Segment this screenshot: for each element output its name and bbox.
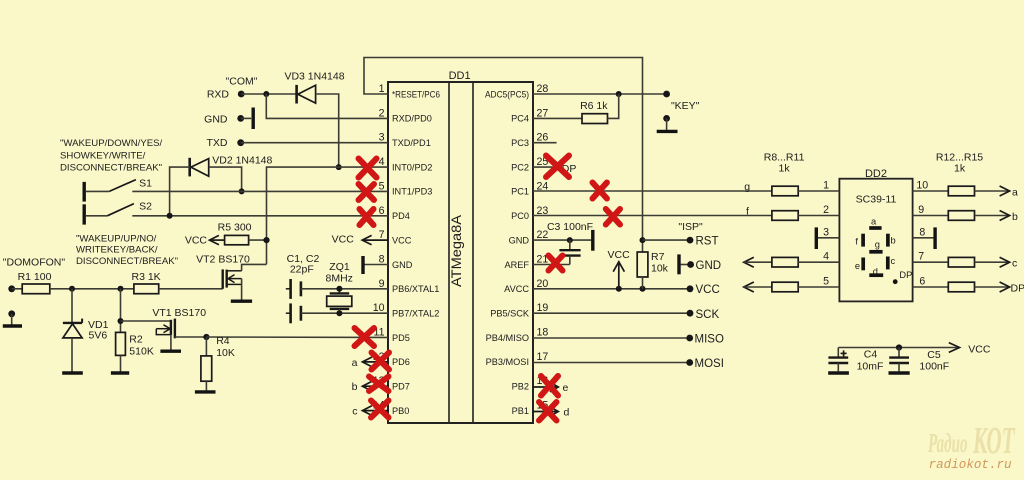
wire pin17 MOSI: [533, 362, 690, 364]
ground ISP, rotated bar: [679, 254, 691, 274]
label C1, C2: [287, 253, 320, 276]
display net row3 left ground, rotated bar: [816, 227, 839, 249]
svg-text:7: 7: [918, 251, 924, 263]
X mark pin15: [539, 402, 557, 421]
svg-text:Радио: Радио: [927, 428, 967, 458]
svg-text:PC4: PC4: [511, 114, 529, 124]
svg-text:d: d: [873, 267, 878, 277]
svg-text:10k: 10k: [651, 263, 669, 275]
node C3 junction: [567, 237, 573, 243]
svg-text:R7: R7: [651, 251, 665, 263]
switch S1: [84, 180, 136, 202]
wire pin4 INT0 horizontal and drop to R5 node: [267, 167, 389, 264]
wire pin21 AREF to C3: [533, 264, 570, 266]
svg-text:3: 3: [823, 226, 829, 238]
terminal DOMOFON input: [8, 285, 15, 292]
terminal ISP VCC: [687, 285, 694, 292]
svg-text:b: b: [352, 381, 358, 393]
svg-text:RST: RST: [696, 235, 719, 247]
svg-text:PB0: PB0: [392, 406, 409, 416]
resistor R5: [225, 235, 267, 244]
svg-text:VCC: VCC: [185, 234, 208, 246]
terminal SCK: [687, 310, 694, 317]
ground C5: [889, 371, 910, 374]
svg-text:VCC: VCC: [696, 284, 720, 296]
svg-text:22pF: 22pF: [290, 264, 314, 276]
supply arrow VCC at R5: [210, 235, 225, 244]
label R12...R15 1k: [936, 151, 983, 174]
svg-text:PB4/MISO: PB4/MISO: [486, 333, 529, 343]
terminal KEY bottom: [663, 115, 670, 122]
svg-text:PB1: PB1: [512, 406, 529, 416]
resistor R2 510K: [116, 332, 126, 371]
pin25 stub: [533, 166, 555, 168]
svg-text:8: 8: [919, 226, 925, 238]
svg-text:"COM": "COM": [226, 76, 258, 88]
svg-text:GND: GND: [696, 260, 722, 272]
svg-text:MOSI: MOSI: [695, 358, 724, 370]
svg-text:c: c: [1012, 258, 1017, 270]
svg-text:R5 300: R5 300: [218, 222, 252, 234]
svg-text:MISO: MISO: [695, 333, 724, 345]
svg-text:WRITEKEY/BACK/: WRITEKEY/BACK/: [76, 245, 158, 256]
label C5 100nF: [919, 349, 949, 373]
wire gate node to VT1: [121, 320, 171, 322]
svg-text:"DOMOFON": "DOMOFON": [3, 257, 66, 269]
pin26 stub: [533, 142, 557, 144]
segment DP dot: [893, 279, 898, 284]
node pin4 junction: [336, 164, 342, 170]
resistor R6: [533, 94, 619, 124]
DD1 left pin numbers: [373, 83, 385, 412]
svg-text:ZQ1: ZQ1: [329, 261, 350, 273]
svg-text:GND: GND: [204, 114, 228, 126]
wire pin24 PC1 to display pin1 (net g): [533, 190, 772, 192]
svg-text:VD3 1N4148: VD3 1N4148: [284, 71, 344, 83]
label R8...R11 1k: [764, 151, 805, 174]
wire RXD to VD3 anode: [241, 93, 296, 95]
wire pin20 AVCC to ISP VCC: [533, 288, 690, 290]
wire pin18 MISO: [533, 337, 690, 339]
svg-text:DP: DP: [1011, 282, 1024, 294]
svg-text:10: 10: [916, 180, 928, 192]
svg-text:b: b: [891, 235, 896, 245]
svg-text:a: a: [352, 357, 358, 369]
svg-text:R4: R4: [216, 335, 230, 347]
svg-text:КОТ: КОТ: [972, 420, 1015, 462]
display net row4 left arrow e: [744, 257, 772, 267]
arrow DP right: [1000, 282, 1010, 292]
supply arrow VCC pin7: [362, 235, 388, 244]
ground R4: [195, 390, 216, 393]
display pin9 to R13 and arrow b: [913, 211, 1010, 221]
svg-text:e: e: [563, 382, 569, 394]
svg-text:a: a: [1012, 186, 1018, 198]
svg-text:GND: GND: [509, 235, 530, 245]
resistor R10: [772, 257, 840, 267]
svg-text:R2: R2: [129, 334, 143, 346]
ground R2: [111, 371, 129, 374]
node R3-R2 junction: [118, 286, 124, 292]
resistor R8: [772, 186, 840, 196]
X mark pin5: [359, 184, 375, 200]
node VT1 gate junction: [118, 318, 124, 324]
ground pin22, rotated bar: [591, 230, 594, 251]
segment e: [861, 258, 865, 271]
transistor VT2 BS170: [223, 269, 242, 300]
DD1 right pin numbers: [537, 83, 549, 412]
svg-text:VT1 BS170: VT1 BS170: [152, 307, 206, 319]
svg-text:PB5/SCK: PB5/SCK: [490, 309, 530, 319]
ground DOMOFON return: [3, 314, 22, 326]
diode VD2 1N4148: [190, 158, 209, 177]
svg-text:ATMega8A: ATMega8A: [448, 214, 464, 287]
svg-text:AREF: AREF: [504, 260, 529, 270]
segment labels: [855, 216, 912, 280]
svg-text:d: d: [564, 407, 570, 419]
svg-text:GND: GND: [392, 260, 413, 270]
segment b: [886, 234, 890, 247]
IC DD1 body: [388, 82, 533, 423]
svg-text:VCC: VCC: [968, 343, 991, 355]
arrow a right: [1000, 186, 1010, 196]
segment f: [861, 234, 865, 247]
pin12 arrow a: [362, 357, 388, 367]
svg-text:VCC: VCC: [608, 249, 631, 261]
svg-text:f: f: [746, 206, 749, 218]
svg-text:b: b: [1012, 211, 1018, 223]
wire VD3 cathode down to pin4 node: [316, 94, 339, 167]
DD1 right pin labels: [485, 89, 530, 416]
wire pin28 ADC5 to KEY: [533, 93, 667, 95]
svg-text:510K: 510K: [129, 346, 154, 358]
pin15 arrow d: [533, 407, 558, 417]
svg-text:2: 2: [823, 204, 829, 216]
terminal GND (COM): [237, 115, 244, 122]
X mark pin21: [549, 256, 563, 271]
svg-text:"ISP": "ISP": [678, 221, 703, 233]
wire pin1 RESET to top rail over to RST column: [364, 58, 643, 253]
node C5 junction: [896, 344, 902, 350]
terminal RXD: [238, 91, 245, 98]
wire TXD to pin3 TXD/PD1: [241, 142, 388, 144]
wire S2 node up to VD2 anode: [170, 167, 190, 216]
wire pin19 SCK: [533, 312, 690, 314]
X mark pin24: [593, 183, 607, 199]
X mark pin4: [359, 159, 377, 178]
node R5 INT0 junction: [263, 237, 269, 243]
wire R5 node to VT2 drain: [242, 264, 267, 270]
svg-text:S1: S1: [139, 178, 152, 190]
ground VT1 source: [160, 350, 181, 353]
supply arrow VCC up: [613, 262, 624, 289]
wire RXD junction down to pin2 RXD/PD0: [266, 94, 388, 118]
ground VD1: [62, 371, 83, 374]
svg-text:INT0/PD2: INT0/PD2: [392, 162, 432, 172]
svg-text:1k: 1k: [779, 163, 791, 175]
svg-text:17: 17: [537, 351, 549, 363]
display pin10 to R12 and arrow a: [913, 186, 1010, 196]
svg-text:C4: C4: [864, 349, 878, 361]
svg-text:AVCC: AVCC: [504, 284, 529, 294]
svg-text:R8...R11: R8...R11: [764, 151, 805, 163]
svg-text:PD7: PD7: [392, 382, 410, 392]
svg-text:radiokot.ru: radiokot.ru: [929, 457, 1012, 472]
svg-text:f: f: [855, 236, 858, 246]
svg-text:PC1: PC1: [511, 187, 529, 197]
svg-text:TXD/PD1: TXD/PD1: [392, 138, 431, 148]
ground C4: [828, 371, 849, 374]
supply arrow VCC right: [949, 343, 960, 353]
X mark pin11: [355, 328, 375, 346]
wire S1 to pin5 INT1: [132, 190, 388, 192]
wire R2 top / VT1 gate node: [120, 289, 122, 333]
label VD1 5V6: [88, 319, 109, 342]
DD2 right pin numbers: [916, 180, 928, 288]
svg-text:INT1/PD3: INT1/PD3: [392, 187, 432, 197]
svg-text:C5: C5: [927, 349, 941, 361]
X mark pin25: [546, 156, 569, 178]
node S2 junction: [167, 213, 173, 219]
svg-text:SCK: SCK: [696, 309, 720, 321]
wire RST: [643, 239, 691, 241]
svg-text:PD4: PD4: [392, 211, 410, 221]
svg-text:S2: S2: [139, 201, 152, 213]
capacitor C3: [559, 240, 580, 264]
text block keys S2 functions: [76, 233, 178, 267]
display pin6 to R15 and arrow DP: [913, 282, 1010, 292]
svg-text:PC0: PC0: [511, 211, 529, 221]
svg-text:5: 5: [823, 276, 829, 288]
wire GND terminal to ground bar: [241, 117, 252, 119]
node R6 top junction: [616, 91, 622, 97]
svg-text:DISCONNECT/BREAK": DISCONNECT/BREAK": [60, 162, 162, 173]
capacitor C5: [889, 348, 909, 372]
wire pin22 GND to ground: [533, 239, 591, 241]
terminal RST: [687, 237, 694, 244]
node RST junction: [640, 237, 646, 243]
svg-text:R6 1k: R6 1k: [580, 100, 608, 112]
ground KEY: [657, 118, 678, 131]
segment d: [869, 273, 883, 277]
svg-text:PB7/XTAL2: PB7/XTAL2: [392, 309, 439, 319]
capacitor C4 polarity plus: [841, 350, 847, 356]
svg-text:"KEY": "KEY": [671, 100, 700, 112]
svg-text:DP: DP: [899, 270, 912, 280]
crystal ZQ1: [327, 289, 352, 313]
node VT1 drain / R4 / PD5: [203, 334, 209, 340]
text block keys S1 functions: [60, 138, 163, 173]
segment g: [869, 250, 882, 254]
node XTAL2 junction: [336, 310, 342, 316]
svg-text:DD1: DD1: [449, 70, 471, 82]
svg-text:c: c: [352, 406, 357, 418]
resistor R4 10K: [201, 337, 212, 390]
wire VD2 cathode down to S1 line: [209, 167, 242, 191]
svg-text:4: 4: [823, 251, 829, 263]
svg-text:PD5: PD5: [392, 333, 410, 343]
svg-text:"WAKEUP/UP/NO/: "WAKEUP/UP/NO/: [76, 233, 157, 244]
zener diode VD1 5V6: [63, 289, 82, 372]
node R7 bottom junction: [640, 286, 646, 292]
X mark pin6: [360, 209, 374, 225]
svg-text:ADC5(PC5): ADC5(PC5): [485, 89, 529, 99]
X mark pin14: [371, 401, 389, 418]
label R7 10k: [651, 251, 669, 275]
DD1 left pin labels: [392, 89, 440, 416]
label R4 10K: [216, 335, 235, 359]
terminal KEY top: [663, 91, 670, 98]
capacitor C4: [828, 348, 848, 372]
svg-text:e: e: [855, 261, 860, 271]
svg-text:DD2: DD2: [865, 168, 887, 180]
node VCC arrow junction: [616, 286, 622, 292]
svg-text:R1 100: R1 100: [18, 271, 52, 283]
svg-text:VD2 1N4148: VD2 1N4148: [212, 155, 272, 167]
terminal MISO: [686, 335, 693, 342]
svg-text:10K: 10K: [216, 347, 235, 359]
svg-text:SHOWKEY/WRITE/: SHOWKEY/WRITE/: [60, 151, 146, 162]
svg-text:g: g: [744, 181, 750, 193]
svg-text:C3 100nF: C3 100nF: [547, 221, 593, 233]
svg-text:18: 18: [537, 327, 549, 339]
display net row5 left arrow d: [744, 282, 772, 292]
segment c: [886, 257, 890, 270]
display pin8 right ground, rotated bar: [913, 227, 936, 249]
svg-text:PB6/XTAL1: PB6/XTAL1: [392, 284, 439, 294]
svg-text:R3 1K: R3 1K: [132, 271, 161, 283]
svg-text:a: a: [871, 216, 877, 226]
svg-text:RXD: RXD: [207, 89, 230, 101]
resistor R1: [12, 284, 134, 294]
switch S2: [84, 204, 134, 225]
X mark pin16: [541, 376, 558, 396]
svg-text:10mF: 10mF: [857, 361, 884, 373]
capacitor C2: [286, 303, 388, 323]
label C4 10mF: [857, 349, 884, 373]
arrow b right: [1000, 211, 1010, 221]
node VD2 to S1 junction: [239, 188, 245, 194]
node R1-VD1 junction: [69, 286, 75, 292]
ground (COM), rotated bar: [251, 108, 254, 130]
svg-text:1: 1: [823, 180, 829, 192]
svg-text:100nF: 100nF: [919, 361, 949, 373]
svg-text:*RESET/PC6: *RESET/PC6: [392, 89, 440, 99]
wire pin23 PC0 to display pin2 (net f): [533, 215, 772, 217]
display DD2 body: [839, 179, 912, 302]
pin13 arrow b: [362, 381, 388, 391]
pin14 arrow c: [362, 406, 388, 416]
arrow c right: [1000, 257, 1010, 267]
svg-text:1k: 1k: [954, 163, 966, 175]
svg-text:8MHz: 8MHz: [325, 273, 352, 285]
seven segment glyph: segment a: [869, 226, 881, 230]
capacitor C1: [286, 279, 388, 299]
svg-text:SC39-11: SC39-11: [856, 194, 897, 206]
terminal DOMOFON return: [8, 310, 15, 317]
X mark pin13: [369, 377, 389, 392]
ground pin8, rotated bar: [362, 256, 389, 274]
terminal TXD: [237, 139, 244, 146]
ground VT2 source: [231, 300, 252, 303]
display pin7 to R14 and arrow c: [913, 257, 1010, 267]
svg-text:RXD/PD0: RXD/PD0: [392, 114, 432, 124]
svg-text:c: c: [891, 256, 896, 266]
X mark pin12: [372, 353, 390, 370]
svg-text:5V6: 5V6: [89, 330, 108, 342]
svg-text:PB2: PB2: [512, 382, 529, 392]
resistor R7 10k: [637, 252, 648, 289]
svg-text:TXD: TXD: [207, 137, 228, 149]
DD2 left pin numbers: [823, 180, 829, 288]
svg-text:PC2: PC2: [511, 162, 529, 172]
resistor R3: [134, 284, 223, 294]
svg-text:R12...R15: R12...R15: [936, 151, 983, 163]
svg-text:PB3/MOSI: PB3/MOSI: [486, 357, 529, 367]
svg-text:VT2 BS170: VT2 BS170: [196, 254, 250, 266]
transistor VT1 BS170: [156, 319, 206, 350]
resistor R11: [772, 282, 840, 292]
svg-text:9: 9: [918, 204, 924, 216]
X mark pin23: [606, 209, 620, 225]
node XTAL1 junction: [336, 286, 342, 292]
label R2 510K: [129, 334, 154, 358]
svg-text:VCC: VCC: [392, 235, 412, 245]
wire VCC rail C4 C5: [838, 347, 959, 349]
wire PD5 to pin11: [206, 336, 388, 339]
pin16 arrow e: [533, 382, 558, 392]
diode VD3 1N4148: [297, 85, 316, 104]
svg-text:6: 6: [919, 276, 925, 288]
svg-text:PD6: PD6: [392, 357, 410, 367]
node RXD junction: [263, 91, 269, 97]
svg-text:DISCONNECT/BREAK": DISCONNECT/BREAK": [76, 256, 178, 267]
svg-text:"WAKEUP/DOWN/YES/: "WAKEUP/DOWN/YES/: [60, 138, 163, 149]
wire S2 to pin6 PD4: [132, 215, 388, 217]
svg-text:VCC: VCC: [332, 234, 355, 246]
label ZQ1 8MHz: [325, 261, 352, 285]
terminal MOSI: [686, 359, 693, 366]
svg-text:g: g: [875, 239, 880, 249]
svg-text:PC3: PC3: [511, 138, 529, 148]
resistor R9: [772, 211, 840, 221]
terminal ISP GND: [687, 261, 694, 268]
